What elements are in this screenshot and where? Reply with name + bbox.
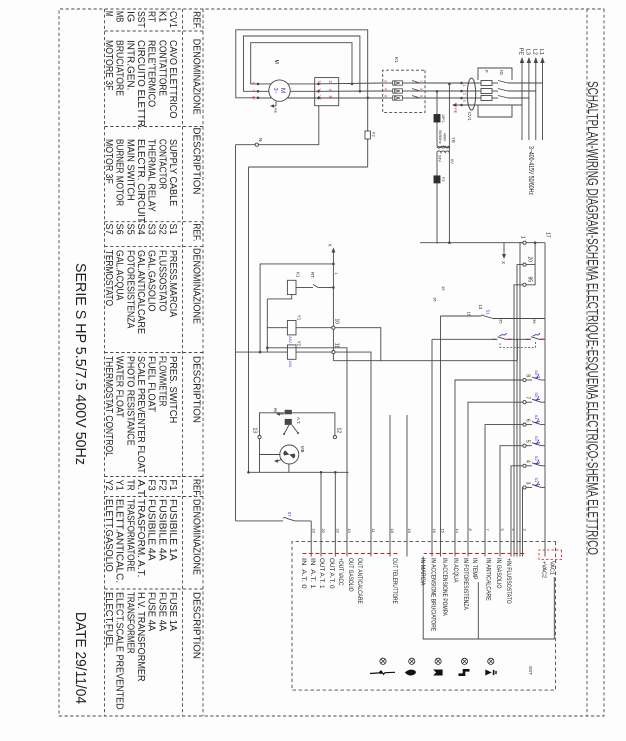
wire N from RT (236, 106, 319, 145)
fuse F3 (434, 176, 440, 183)
wire K1 to RT phase 1 (315, 82, 383, 85)
svg-text:L3: L3 (524, 49, 530, 55)
svg-text:DENOMINAZIONE: DENOMINAZIONE (191, 248, 203, 324)
SST icon nozzle (488, 658, 494, 664)
sensor switch S3 (541, 445, 545, 447)
svg-text:SCALE PREVENTER FLOAT: SCALE PREVENTER FLOAT (135, 356, 146, 474)
K1 contact pole 2 (412, 90, 420, 92)
motor terminal dots (257, 83, 260, 86)
sensor switch S6 (541, 379, 545, 381)
svg-text:8: 8 (525, 374, 531, 377)
svg-text:DENOMINAZIONE: DENOMINAZIONE (191, 39, 203, 115)
wire node 3 to SST (522, 487, 524, 556)
svg-text:REF.: REF. (191, 479, 203, 497)
svg-text:MOTOR 3F: MOTOR 3F (103, 139, 114, 184)
svg-text:K1: K1 (156, 11, 167, 23)
svg-text:REF.: REF. (191, 224, 203, 242)
svg-text:TR: TR (124, 480, 135, 491)
supply cable CV1 ellipse (467, 78, 475, 110)
svg-text:F3: F3 (441, 177, 445, 181)
svg-text:A.T: A.T (135, 480, 146, 497)
X reference arrow right (503, 243, 505, 254)
svg-text:M: M (273, 60, 279, 64)
terminal dot L1 (460, 82, 463, 85)
svg-text:X: X (328, 244, 333, 247)
svg-text:13: 13 (478, 305, 483, 310)
svg-text:BRUCIATORE: BRUCIATORE (114, 40, 125, 96)
wire node 6 to SST (485, 425, 523, 557)
svg-text:19: 19 (407, 529, 412, 533)
SST red terminal strip lower (302, 553, 398, 555)
flow contact lower (498, 337, 506, 340)
wire tap phase1 to TR upper (448, 84, 450, 154)
svg-text:1: 1 (520, 236, 526, 239)
K1 chopper box 1 (393, 81, 403, 85)
legend column separator (105, 126, 204, 128)
wire MB east to x472 (288, 464, 290, 472)
wire 12 loop (260, 413, 335, 473)
svg-text:PRES. SWITCH: PRES. SWITCH (167, 356, 178, 423)
terminal dot L3 (460, 97, 463, 100)
svg-text:CAVO ELETTRICO: CAVO ELETTRICO (167, 40, 178, 119)
bus 16 to SST (431, 339, 433, 556)
wire control loop vertical (381, 360, 518, 362)
AT spark gap (284, 425, 298, 434)
svg-text:H.V. TRANSFORMER: H.V. TRANSFORMER (135, 592, 146, 682)
legend header row bottom line (182, 9, 184, 716)
wire flow branch down (432, 338, 498, 340)
svg-text:PRESS.MARCIA: PRESS.MARCIA (167, 250, 178, 317)
fuse 19F1 (434, 115, 440, 123)
svg-text:IN ACCENSIONE BRUCIATORE: IN ACCENSIONE BRUCIATORE (430, 558, 436, 631)
svg-text:CIRCUITO ELETTR.: CIRCUITO ELETTR. (135, 40, 146, 130)
mechanical link dashed bracket (500, 342, 535, 348)
SST icon pipe (461, 658, 467, 664)
PE ground arrow (456, 104, 462, 106)
wire S7 branch (295, 520, 311, 522)
svg-text:S7: S7 (103, 224, 114, 236)
legend column separator (105, 221, 204, 223)
svg-text:22: 22 (336, 529, 341, 533)
wire L3 drop to IG (508, 97, 529, 99)
AT ground arrow (280, 413, 284, 415)
svg-text:FLOWMETER: FLOWMETER (156, 356, 167, 406)
neutral bus to SST (235, 145, 237, 521)
svg-text:REF.: REF. (191, 11, 203, 29)
svg-text:L2: L2 (531, 49, 537, 55)
svg-text:11: 11 (371, 529, 376, 533)
K1 chopper box 2 (393, 89, 403, 93)
wire node10 up and over (333, 328, 380, 361)
svg-text:OUT TELERUTTORE: OUT TELERUTTORE (391, 558, 397, 604)
wire return to N bus (236, 351, 268, 353)
svg-text:S2: S2 (156, 224, 167, 236)
MB fan symbol (283, 451, 295, 459)
svg-text:19F1: 19F1 (441, 114, 445, 123)
svg-text:RT: RT (310, 272, 315, 278)
wire Y2 top (296, 351, 332, 353)
node 6 (526, 424, 532, 426)
svg-text:7: 7 (525, 396, 531, 399)
svg-text:K1: K1 (296, 272, 301, 278)
S1 press switch contact (485, 316, 494, 319)
node 20 (523, 263, 526, 266)
svg-text:VAC1: VAC1 (549, 561, 555, 575)
wire node 1 to SST (520, 243, 523, 557)
svg-text:FOTORESISTENZA: FOTORESISTENZA (124, 250, 135, 329)
VAC1 internal wire (423, 557, 554, 640)
wire K1 to RT phase 2 (315, 90, 383, 92)
svg-text:OUT ANTICALCARE: OUT ANTICALCARE (356, 558, 362, 604)
wire node 20 to SST (517, 265, 523, 557)
sensor switch S2 (541, 465, 545, 467)
wire node1 vertical (420, 242, 545, 244)
svg-text:16: 16 (432, 529, 437, 533)
svg-text:10: 10 (334, 318, 340, 324)
wire RT aux to K1 coil (296, 287, 310, 289)
svg-text:DESCRIPTION: DESCRIPTION (191, 592, 203, 659)
svg-text:F1: F1 (167, 480, 178, 492)
wire between contacts (506, 338, 532, 340)
legend column separator (105, 588, 204, 590)
svg-text:DENOMINAZIONE: DENOMINAZIONE (191, 499, 203, 575)
svg-text:TRASFORM. A.T.: TRASFORM. A.T. (135, 499, 146, 577)
legend column separator (105, 352, 204, 354)
wire PE drop (462, 104, 523, 106)
node 13 (258, 436, 261, 439)
svg-text:8: 8 (468, 529, 473, 531)
svg-text:ELECTR. CIRCUIT: ELECTR. CIRCUIT (135, 139, 146, 223)
svg-text:3: 3 (525, 482, 531, 485)
svg-text:2: 2 (384, 80, 388, 82)
fuse F2 (365, 131, 370, 139)
svg-text:GAL.ACQUA: GAL.ACQUA (114, 250, 125, 301)
bus 14 to SST (248, 167, 250, 472)
wire S1 branch from bus (493, 318, 545, 320)
svg-text:X: X (501, 261, 506, 264)
wire Y2 bottom (267, 351, 287, 353)
svg-text:ELETT.ANTICALC.: ELETT.ANTICALC. (114, 499, 125, 583)
svg-text:Y1: Y1 (114, 480, 125, 492)
svg-text:15: 15 (441, 286, 446, 291)
svg-text:A.T.: A.T. (296, 417, 301, 424)
svg-text:+IN FLUSSOSTATO: +IN FLUSSOSTATO (505, 558, 511, 604)
wire S7 down to neutral bus (236, 520, 284, 522)
IG fuse 1 (481, 81, 492, 86)
svg-text:DATE 29/11/04: DATE 29/11/04 (72, 612, 88, 704)
terminal dot L2 (460, 90, 463, 93)
wire phase3 terminals to K1 (412, 97, 462, 99)
wire branch to node 20 (527, 243, 536, 265)
svg-text:BURNER MOTOR: BURNER MOTOR (114, 139, 125, 206)
wire RT to motor phase 2 (258, 90, 315, 92)
legend table top line (202, 9, 204, 716)
svg-text:20: 20 (527, 256, 533, 262)
motor loop wire inner (251, 43, 352, 84)
wire K1 coil branch down (318, 287, 333, 289)
svg-text:3: 3 (419, 88, 423, 90)
svg-text:5: 5 (500, 529, 505, 531)
svg-text:CONTACTOR: CONTACTOR (156, 139, 167, 189)
svg-text:TERMOSTATO: TERMOSTATO (103, 250, 114, 306)
node 8 (526, 379, 532, 381)
K1 contact pole 3 (412, 97, 420, 99)
svg-text:S5: S5 (124, 224, 135, 236)
svg-text:23: 23 (311, 529, 316, 533)
wire node 4 to SST (511, 466, 523, 557)
wire Y1 bottom (267, 327, 287, 329)
wire node 95 to SST (514, 285, 523, 557)
svg-text:IN FOTORESISTENZA: IN FOTORESISTENZA (462, 558, 468, 610)
node 95 (523, 283, 526, 286)
svg-text:DESCRIPTION: DESCRIPTION (191, 356, 203, 423)
svg-text:5: 5 (419, 95, 423, 97)
svg-text:7: 7 (485, 529, 490, 531)
svg-text:IN ACQUA: IN ACQUA (452, 558, 458, 582)
wire RT to motor phase 1 (258, 83, 315, 85)
svg-text:FUSIBILE 4A: FUSIBILE 4A (156, 499, 167, 561)
node 10 (332, 326, 335, 329)
wire K1 to RT phase 3 (315, 97, 383, 99)
svg-text:3~: 3~ (272, 87, 278, 93)
svg-text:S2: S2 (534, 456, 539, 462)
svg-text:1: 1 (419, 80, 423, 82)
svg-text:5: 5 (525, 440, 531, 443)
supply line L3 (528, 58, 530, 140)
return bus lower (260, 264, 333, 352)
motor loop wire middle (244, 36, 360, 91)
wire tap phase2 to TR lower (436, 91, 438, 146)
X reference arrow left (331, 248, 335, 253)
svg-text:Y1: Y1 (297, 315, 302, 321)
K1 wires through choppers (383, 82, 393, 84)
svg-text:M: M (103, 11, 114, 17)
supply line L2 (535, 58, 537, 140)
legend column separator (105, 245, 204, 247)
contactor K1 dashed box (383, 70, 425, 112)
svg-text:1: 1 (334, 273, 338, 275)
IG fuse 3 (481, 96, 492, 101)
SST red VAC bracket (539, 550, 562, 560)
wire L1 drop to IG (508, 82, 543, 84)
svg-text:3: 3 (523, 529, 528, 531)
SST icon drop (409, 658, 415, 664)
bus 23 S7 to SST (310, 521, 312, 557)
wire node 5 to SST (500, 446, 523, 557)
wire IG to terminals phase 1 (462, 82, 479, 84)
RT auxiliary contact (313, 285, 318, 288)
MB ground arrow (278, 459, 282, 461)
burner motor MB circle (280, 445, 299, 464)
svg-text:IN A.T. 1: IN A.T. 1 (309, 558, 315, 589)
bus 20 to SST (320, 472, 322, 556)
svg-text:FUEL FLOAT: FUEL FLOAT (146, 356, 157, 412)
sensor switch S1 (541, 486, 545, 488)
svg-text:6: 6 (525, 419, 531, 422)
wire F2 branch down to bus (249, 166, 368, 168)
svg-text:MB: MB (300, 446, 305, 453)
node 3 (526, 486, 532, 488)
svg-text:IN GASOLIO: IN GASOLIO (495, 558, 501, 589)
svg-text:IN A.T. 0: IN A.T. 0 (300, 558, 306, 589)
svg-text:GAL.ANTICALCARE: GAL.ANTICALCARE (135, 250, 146, 334)
svg-text:35: 35 (499, 319, 504, 324)
svg-text:24V: 24V (438, 155, 443, 162)
svg-text:SST: SST (528, 666, 533, 675)
svg-text:PE: PE (518, 48, 524, 56)
wire x472 vertical (249, 471, 349, 473)
wire phase1 terminals to K1 (412, 82, 462, 84)
SST icon pump (435, 658, 441, 664)
svg-text:DESCRIPTION: DESCRIPTION (191, 128, 203, 195)
svg-text:0V: 0V (450, 159, 455, 164)
legend table bottom line (104, 9, 106, 716)
node 12 (333, 436, 336, 439)
SST internal wire from IN TEMP (477, 582, 479, 639)
svg-text:OUT A.T. 0: OUT A.T. 0 (328, 558, 334, 589)
svg-text:IG: IG (498, 70, 504, 75)
svg-text:M: M (279, 88, 286, 93)
svg-text:TRANSFORMER: TRANSFORMER (124, 592, 135, 654)
svg-text:IN MARCIA: IN MARCIA (419, 558, 425, 585)
svg-text:IN ANTICALCARE: IN ANTICALCARE (485, 558, 491, 601)
svg-text:SST: SST (135, 11, 146, 28)
red ticks upper contact (540, 338, 544, 340)
RT junction dots (317, 83, 320, 86)
svg-text:PHOTO RESISTANCE: PHOTO RESISTANCE (124, 356, 135, 446)
svg-text:S3: S3 (146, 224, 157, 236)
TR secondary upper wire 0V (448, 153, 450, 243)
wire S1 down (441, 315, 482, 317)
bus 17a to SST (406, 415, 408, 557)
wire K1 coil to bus (267, 295, 291, 299)
motor M circle (269, 80, 290, 101)
svg-text:N: N (257, 138, 263, 142)
svg-text:IG: IG (124, 11, 135, 22)
sensor switch S4 (541, 424, 545, 426)
svg-text:FUSIBILE 4A: FUSIBILE 4A (146, 499, 157, 561)
svg-text:SCHALTPLAN-WIRING DIAGRAM-SCHE: SCHALTPLAN-WIRING DIAGRAM-SCHEMA ELECTRI… (584, 81, 600, 555)
svg-text:S3: S3 (534, 436, 539, 442)
legend column separator (105, 30, 204, 32)
wire node 7 to SST (468, 402, 523, 556)
solenoid Y2 box (287, 345, 296, 359)
bus 15 to SST (440, 316, 442, 557)
legend column separator (105, 476, 204, 478)
svg-text:W: W (252, 96, 256, 100)
svg-text:K1: K1 (393, 57, 399, 63)
svg-text:TRASFORMATORE: TRASFORMATORE (124, 499, 135, 572)
svg-text:OUT GASOLIO: OUT GASOLIO (347, 558, 353, 592)
svg-text:6: 6 (384, 95, 388, 97)
svg-text:+OUT VACC: +OUT VACC (337, 558, 343, 586)
wire IG to terminals phase 3 (462, 97, 479, 99)
IG fuse 2 (481, 89, 492, 94)
svg-text:95: 95 (527, 276, 533, 282)
motor PE ground arrow (275, 102, 277, 107)
svg-text:ELETT.GASOLIO: ELETT.GASOLIO (103, 499, 114, 572)
svg-text:CV1: CV1 (467, 112, 472, 121)
svg-text:F3: F3 (146, 480, 157, 492)
svg-text:RT: RT (146, 11, 157, 22)
title strip separator line (586, 9, 588, 716)
node 5 (526, 445, 532, 447)
svg-text:4: 4 (384, 88, 388, 90)
transformer TR coils (437, 147, 450, 149)
svg-text:U: U (252, 82, 256, 85)
svg-text:FUSE 4A: FUSE 4A (146, 592, 157, 632)
bus 22 to SST (334, 472, 336, 556)
svg-text:4: 4 (525, 460, 531, 463)
wire IG to terminals phase 2 (462, 90, 479, 92)
svg-text:L1: L1 (538, 49, 544, 55)
legend column separator (105, 496, 204, 498)
SST red terminal strip upper (424, 553, 525, 555)
svg-text:TR: TR (451, 137, 456, 143)
svg-text:S7: S7 (287, 512, 292, 518)
svg-text:15: 15 (441, 529, 446, 533)
wire tap phase3 F2 branch (367, 98, 369, 167)
node 7 (526, 401, 532, 403)
svg-text:400V: 400V (443, 133, 447, 142)
IG switch pole 2 (498, 89, 508, 92)
transformer TR primary coil (437, 146, 449, 148)
wire MB to bus 13 (260, 454, 280, 456)
wire RT to motor phase 3 (258, 97, 315, 99)
svg-text:THERMOSTAT CONTROL: THERMOSTAT CONTROL (103, 356, 114, 457)
sensor switch S5 (541, 401, 545, 403)
node 4 (526, 465, 532, 467)
svg-text:OUT A.T. 1: OUT A.T. 1 (318, 558, 324, 589)
S7 thermostat contact (287, 518, 296, 521)
bus 19 to SST (389, 415, 391, 557)
svg-text:FUSE 4A: FUSE 4A (156, 592, 167, 632)
svg-text:S5: S5 (534, 392, 539, 398)
control bus 17 (544, 243, 546, 557)
K1 chopper box 3 (393, 96, 403, 100)
svg-text:PE: PE (273, 408, 277, 413)
svg-text:F2: F2 (156, 480, 167, 492)
wire L2 drop to IG (508, 90, 536, 92)
TR secondary lower wire 24V (436, 153, 438, 244)
svg-text:S4: S4 (534, 415, 539, 421)
terminal dot PE (460, 104, 463, 107)
svg-text:CV1: CV1 (167, 11, 178, 28)
svg-text:13: 13 (252, 427, 258, 433)
node 11 (332, 351, 335, 354)
svg-text:S1: S1 (167, 224, 178, 236)
bus 10 to SST (267, 348, 347, 557)
wire node 8 to SST (455, 380, 523, 557)
bus 11 to SST (335, 352, 371, 556)
svg-text:CONTATTORE: CONTATTORE (156, 40, 167, 96)
K1 contact pole 1 (412, 82, 420, 84)
thermal relay RT box (315, 78, 339, 106)
svg-text:16: 16 (433, 297, 438, 302)
solenoid Y1 box (287, 321, 296, 335)
svg-text:MB: MB (114, 11, 125, 22)
svg-text:MAIN SWITCH: MAIN SWITCH (124, 139, 135, 201)
svg-text:FUSIBILE 1A: FUSIBILE 1A (167, 499, 178, 561)
svg-text:50/60Hz: 50/60Hz (438, 130, 442, 144)
svg-text:ELECT.SCALE PREVENTED: ELECT.SCALE PREVENTED (114, 592, 125, 710)
svg-text:S1: S1 (486, 310, 491, 316)
svg-text:RELE'TERMICO: RELE'TERMICO (146, 40, 157, 107)
svg-text:IN TEMP: IN TEMP (471, 558, 477, 579)
IG switch pole 1 (498, 81, 508, 84)
node N (255, 143, 258, 146)
svg-text:WATER FLOAT: WATER FLOAT (114, 356, 125, 418)
